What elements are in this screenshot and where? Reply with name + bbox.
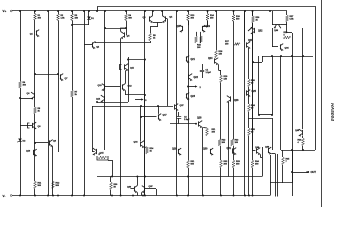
svg-text:Q29: Q29 — [172, 149, 177, 151]
svg-text:Q30: Q30 — [203, 149, 208, 151]
svg-text:Q18: Q18 — [176, 26, 181, 28]
svg-text:1.2pF: 1.2pF — [206, 72, 212, 74]
svg-text:V-: V- — [3, 194, 6, 198]
svg-text:V+: V+ — [3, 9, 7, 13]
svg-text:Q21: Q21 — [191, 59, 196, 61]
svg-text:Q22: Q22 — [194, 77, 199, 79]
svg-text:Q19: Q19 — [206, 26, 211, 28]
svg-text:HA5004: HA5004 — [329, 103, 335, 121]
svg-text:OUT: OUT — [311, 170, 317, 174]
svg-text:1.5pF: 1.5pF — [184, 119, 190, 121]
svg-text:Q31: Q31 — [227, 148, 232, 150]
svg-text:Q32: Q32 — [258, 31, 263, 33]
svg-text:Q26: Q26 — [234, 100, 239, 102]
svg-text:Q28: Q28 — [197, 118, 202, 120]
svg-text:Q24: Q24 — [208, 57, 213, 60]
svg-text:Q23: Q23 — [191, 96, 196, 98]
